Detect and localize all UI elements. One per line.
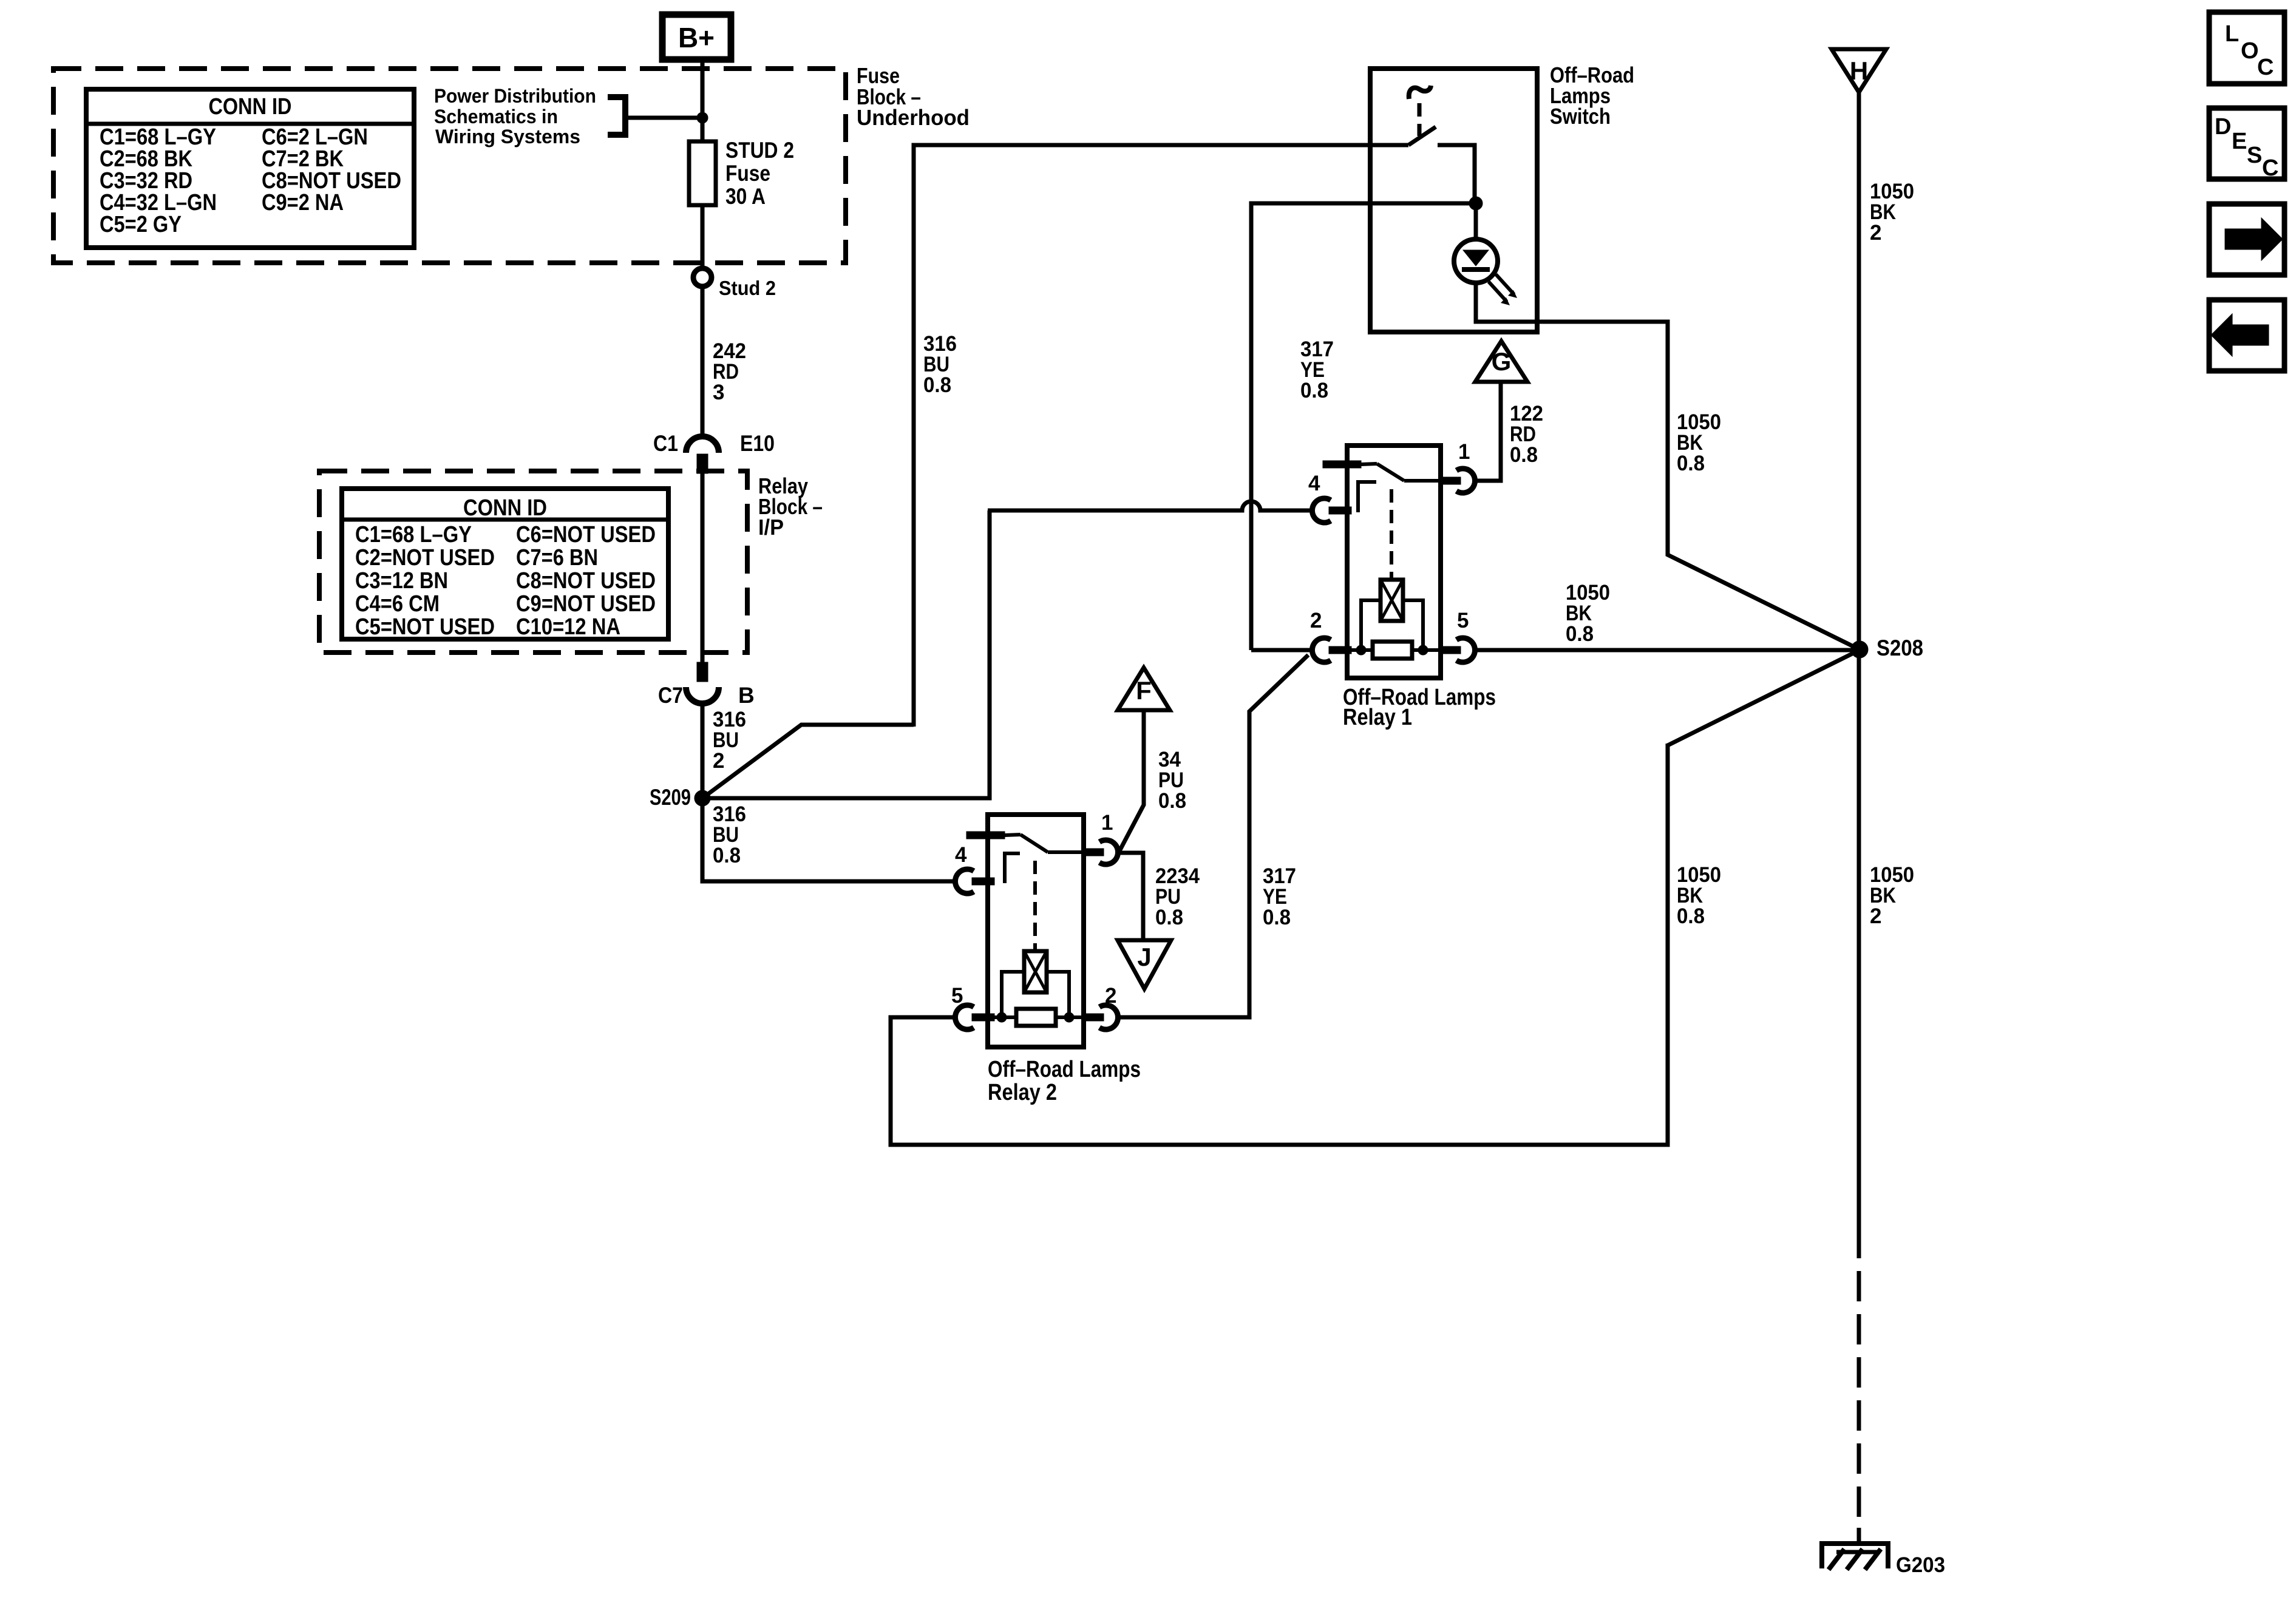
- svg-text:5: 5: [951, 984, 963, 1008]
- relay 1 coil bracket: [1361, 600, 1423, 650]
- relay 1 pin 1 bar: [1441, 477, 1461, 484]
- relay 2 pin 5 terminal arc: [955, 1005, 974, 1029]
- svg-text:4: 4: [1308, 472, 1320, 495]
- label relay 2 pin 1: [1101, 811, 1113, 835]
- wire fuse to stud 2: [701, 205, 705, 271]
- wire C7 to S209: [701, 703, 705, 798]
- svg-text:C9=NOT USED: C9=NOT USED: [516, 591, 656, 617]
- relay 2 switch blade: [1005, 835, 1048, 852]
- relay 1 pin 1 terminal arc: [1456, 469, 1475, 493]
- LED triangle: [1463, 250, 1489, 266]
- svg-text:C8=NOT USED: C8=NOT USED: [516, 568, 656, 594]
- relay 1 pin 2 bar: [1329, 646, 1351, 654]
- wire 317 YE continuation diagonal: [1249, 655, 1308, 1015]
- connector J triangle: [1118, 940, 1171, 989]
- svg-text:C6=NOT USED: C6=NOT USED: [516, 522, 656, 547]
- node: relay 2 coil junction dots: [997, 1012, 1074, 1022]
- svg-text:2: 2: [1870, 904, 1881, 928]
- svg-text:G: G: [1492, 347, 1512, 376]
- label 34 PU 0.8: [1158, 748, 1186, 813]
- svg-text:0.8: 0.8: [923, 373, 951, 397]
- svg-text:Off–Road Lamps: Off–Road Lamps: [988, 1057, 1141, 1082]
- svg-text:J: J: [1137, 943, 1151, 971]
- svg-text:2: 2: [1310, 609, 1322, 632]
- indicator lamp LED circle: [1454, 239, 1498, 283]
- svg-text:Relay 1: Relay 1: [1343, 705, 1412, 730]
- svg-text:2: 2: [1870, 221, 1881, 245]
- label relay 1 pin 2: [1310, 609, 1322, 632]
- svg-text:CONN ID: CONN ID: [209, 94, 292, 120]
- switch actuator dashed link: [1418, 103, 1422, 136]
- svg-text:Power Distribution: Power Distribution: [434, 85, 596, 107]
- label relay 2 pin 4: [955, 843, 967, 867]
- label G203: [1896, 1553, 1945, 1577]
- label Stud 2: [719, 277, 776, 299]
- svg-text:4: 4: [955, 843, 967, 867]
- label Off-Road Lamps Switch: [1550, 63, 1634, 129]
- label 1050 BK 0.8 (upper right): [1677, 410, 1721, 475]
- wire S209 down to relay 2 pin 4: [702, 798, 954, 881]
- svg-text:Switch: Switch: [1550, 104, 1611, 129]
- relay 2 pin 4 step link: [1005, 853, 1020, 883]
- svg-text:0.8: 0.8: [1300, 379, 1328, 402]
- svg-text:30 A: 30 A: [725, 184, 766, 209]
- node: switch output junction dot: [1469, 197, 1483, 210]
- relay 2 common bar: [966, 832, 1005, 839]
- connector C7 B (female arc): [686, 687, 719, 703]
- label relay 1 pin 1: [1458, 440, 1470, 464]
- svg-text:O: O: [2241, 38, 2259, 64]
- relay 1 pin 4 step link: [1358, 482, 1376, 512]
- CONN ID table (fuse block underhood): [86, 89, 414, 248]
- relay 1 pin 4 terminal arc: [1312, 498, 1331, 523]
- svg-text:0.8: 0.8: [1155, 906, 1183, 929]
- relay 1 resistor: [1373, 642, 1412, 659]
- svg-text:C1=68 L–GY: C1=68 L–GY: [355, 522, 472, 547]
- svg-text:C5=NOT USED: C5=NOT USED: [355, 614, 495, 640]
- label Relay Block - I/P: [758, 473, 823, 540]
- label E10: [740, 431, 775, 456]
- switch blade (open): [1408, 127, 1436, 145]
- label C1: [653, 431, 678, 456]
- connector H triangle: [1832, 49, 1886, 92]
- label 317 YE 0.8 (upper): [1300, 337, 1334, 402]
- relay 1 coil X: [1381, 580, 1403, 621]
- label 316 BU 0.8 (upper): [923, 332, 957, 397]
- svg-text:Underhood: Underhood: [857, 105, 970, 130]
- svg-text:S208: S208: [1877, 636, 1923, 660]
- wire relay 2 pin 1 to J: [1119, 853, 1143, 940]
- label 1050 BK 2 (upper): [1870, 180, 1914, 245]
- svg-text:L: L: [2225, 21, 2239, 47]
- off-road lamps switch box: [1370, 69, 1537, 332]
- connector C7 B male stub: [697, 662, 708, 682]
- svg-text:Wiring Systems: Wiring Systems: [435, 126, 580, 147]
- svg-text:B: B: [738, 683, 755, 708]
- icon forward arrow box: [2209, 204, 2284, 275]
- label 1050 BK 0.8 (relay1 to S208): [1566, 581, 1610, 646]
- label C7: [658, 683, 683, 708]
- svg-text:I/P: I/P: [758, 515, 784, 540]
- svg-text:2: 2: [1105, 984, 1116, 1008]
- label relay 1 pin 4: [1308, 472, 1320, 495]
- svg-text:1: 1: [1458, 440, 1470, 464]
- svg-text:Relay 2: Relay 2: [988, 1080, 1057, 1105]
- wire C1 to C7 through relay block: [701, 473, 705, 662]
- wire 317 YE from switch: [1251, 203, 1476, 650]
- label 1050 BK 2 (lower): [1870, 863, 1914, 928]
- svg-text:C2=NOT USED: C2=NOT USED: [355, 545, 495, 571]
- wire S209 diagonal up to 316 feed: [702, 725, 914, 798]
- svg-text:0.8: 0.8: [1158, 789, 1186, 813]
- svg-text:Fuse: Fuse: [725, 161, 770, 186]
- label relay 1 pin 5: [1457, 609, 1469, 632]
- node: junction dot at power distribution tap: [697, 112, 708, 123]
- svg-text:H: H: [1850, 56, 1868, 85]
- svg-text:E: E: [2232, 129, 2247, 154]
- svg-text:C5=2 GY: C5=2 GY: [100, 212, 182, 237]
- svg-text:Stud 2: Stud 2: [719, 277, 776, 299]
- relay 2 pin 1 bar: [1084, 849, 1104, 856]
- node S209 splice dot: [695, 790, 710, 806]
- wire S208 down (dashed): [1857, 1271, 1861, 1545]
- icon back arrow box: [2209, 300, 2284, 371]
- wire ground loop diagonal to S208: [1668, 650, 1860, 745]
- connector F triangle: [1118, 668, 1170, 710]
- label 242 RD 3: [713, 339, 746, 404]
- svg-text:S: S: [2247, 143, 2262, 168]
- relay 2 pin 5 bar: [972, 1014, 994, 1021]
- LED cathode bar: [1462, 267, 1490, 272]
- label 317 YE 0.8 (lower): [1263, 864, 1296, 929]
- relay 2 pin 1 terminal arc: [1099, 840, 1118, 864]
- relay 2 pin row wires: [994, 1015, 1084, 1019]
- svg-text:C10=12 NA: C10=12 NA: [516, 614, 620, 640]
- relay 2 pin 4 terminal arc: [955, 869, 974, 893]
- wire B+ to fuse: [701, 59, 705, 141]
- label 316 BU 2: [713, 708, 746, 773]
- relay 1 switch blade: [1361, 464, 1404, 481]
- relay 1 pin row wires: [1351, 648, 1441, 652]
- relay block I/P dashed box: [319, 471, 747, 653]
- label Off-Road Lamps Relay 2: [988, 1057, 1141, 1105]
- svg-text:C4=6 CM: C4=6 CM: [355, 591, 440, 617]
- relay 2 pin 2 bar: [1084, 1014, 1104, 1021]
- label 316 BU 0.8 (lower): [713, 802, 746, 867]
- node S208 splice dot: [1851, 641, 1868, 658]
- label 122 RD 0.8: [1510, 402, 1543, 467]
- relay 2 coil box: [1024, 951, 1047, 992]
- power feed B+ box: [662, 15, 731, 59]
- relay 1 pin 2 terminal arc: [1312, 638, 1331, 662]
- fuse STUD 2 30A: [689, 141, 716, 205]
- relay 1 pin 4 bar: [1329, 507, 1351, 514]
- svg-text:0.8: 0.8: [713, 844, 741, 867]
- relay 2 coil bracket: [1002, 972, 1069, 1017]
- wire to relay 1 pin 4 with hop over 317 YE: [988, 501, 1311, 510]
- connector Stud 2 ring: [693, 268, 712, 286]
- label relay 2 pin 2: [1105, 984, 1116, 1008]
- svg-text:C: C: [2257, 55, 2274, 80]
- wire stud 2 to connector C1: [701, 286, 705, 436]
- svg-text:S209: S209: [650, 785, 691, 810]
- off-road lamps relay 1 box: [1347, 446, 1441, 678]
- connector C1 E10 male stub: [697, 454, 708, 473]
- wire S208 down (solid): [1857, 649, 1861, 1258]
- wire relay 1 pin 5 to S208: [1476, 648, 1860, 653]
- wire / bracket to Power Distribution note: [608, 97, 700, 135]
- svg-text:C: C: [2262, 155, 2278, 181]
- label B: [738, 683, 755, 708]
- off-road lamps relay 2 box: [988, 815, 1084, 1047]
- wire relay 2 pin 5 ground loop: [891, 744, 1668, 1145]
- svg-text:Schematics in: Schematics in: [434, 106, 558, 127]
- svg-text:0.8: 0.8: [1263, 906, 1291, 929]
- svg-text:0.8: 0.8: [1566, 622, 1594, 646]
- svg-text:C3=12 BN: C3=12 BN: [355, 568, 448, 594]
- label Off-Road Lamps Relay 1: [1343, 685, 1496, 730]
- relay 2 pin 4 bar: [972, 878, 994, 885]
- svg-text:CONN ID: CONN ID: [463, 495, 547, 521]
- svg-text:5: 5: [1457, 609, 1469, 632]
- relay 1 coil box: [1381, 580, 1403, 621]
- switch actuator curl icon: [1409, 86, 1431, 99]
- label STUD 2 Fuse 30 A: [725, 138, 794, 209]
- label 2234 PU 0.8: [1155, 864, 1200, 929]
- label 1050 BK 0.8 (ground loop): [1677, 863, 1721, 928]
- wire relay 2 pin 2 to 317 YE riser: [1119, 1014, 1249, 1017]
- svg-text:C9=2 NA: C9=2 NA: [262, 190, 344, 215]
- svg-text:2: 2: [713, 749, 724, 773]
- svg-text:0.8: 0.8: [1677, 452, 1705, 475]
- svg-text:G203: G203: [1896, 1553, 1945, 1577]
- relay 2 resistor: [1016, 1009, 1056, 1026]
- svg-text:B+: B+: [678, 22, 715, 53]
- wire 122 RD relay1 pin1 to G: [1476, 382, 1501, 481]
- connector C1 E10 (female arc): [686, 436, 719, 453]
- wire 317 YE into relay 1 pin 2: [1251, 648, 1311, 653]
- icon LOC box: [2209, 12, 2284, 84]
- wire 1050 BK 2 from H to S208: [1857, 92, 1861, 649]
- svg-text:C7: C7: [658, 683, 683, 708]
- svg-text:C1: C1: [653, 431, 678, 456]
- svg-text:1: 1: [1101, 811, 1113, 835]
- svg-text:STUD 2: STUD 2: [725, 138, 794, 163]
- relay 1 blade to pin 1: [1404, 479, 1441, 483]
- node: relay 1 coil junction dots: [1356, 645, 1428, 655]
- label relay 2 pin 5: [951, 984, 963, 1008]
- svg-text:0.8: 0.8: [1677, 904, 1705, 928]
- LED light arrows: [1489, 274, 1517, 305]
- relay 2 coil dashed link: [1033, 861, 1037, 949]
- indicator LED through wire and exit to S208 diagonal: [1476, 203, 1860, 649]
- wire 316 BU vertical up to switch: [914, 145, 1408, 727]
- svg-text:0.8: 0.8: [1510, 443, 1538, 467]
- relay 2 coil X: [1024, 951, 1047, 992]
- svg-text:D: D: [2215, 114, 2231, 140]
- fuse block underhood dashed box: [53, 69, 846, 263]
- ground G203 symbol: [1822, 1544, 1888, 1570]
- switch output contact: [1438, 145, 1475, 203]
- wire S209 right to relay 1 pin 4 riser: [702, 510, 990, 798]
- label Power Distribution Schematics in Wiring Systems: [434, 85, 596, 147]
- relay 2 pin 2 terminal arc: [1099, 1005, 1118, 1029]
- relay 1 common bar: [1323, 461, 1361, 468]
- connector G triangle (to off-road lamps): [1475, 341, 1527, 382]
- label Fuse Block - Underhood: [857, 63, 970, 130]
- relay 1 pin 5 terminal arc: [1456, 638, 1475, 662]
- svg-text:C7=6 BN: C7=6 BN: [516, 545, 598, 571]
- wire 34 PU from F to relay 2 pin 1: [1119, 710, 1144, 851]
- svg-text:3: 3: [713, 381, 724, 404]
- icon DESC box: [2209, 108, 2284, 181]
- svg-text:E10: E10: [740, 431, 775, 456]
- relay 1 pin 5 bar: [1441, 646, 1461, 654]
- svg-text:F: F: [1136, 676, 1152, 705]
- label S208: [1877, 636, 1923, 660]
- CONN ID table (relay block IP): [342, 489, 668, 640]
- label S209: [650, 785, 691, 810]
- relay 1 coil dashed link: [1390, 489, 1393, 578]
- relay 2 blade to pin 1: [1048, 850, 1084, 854]
